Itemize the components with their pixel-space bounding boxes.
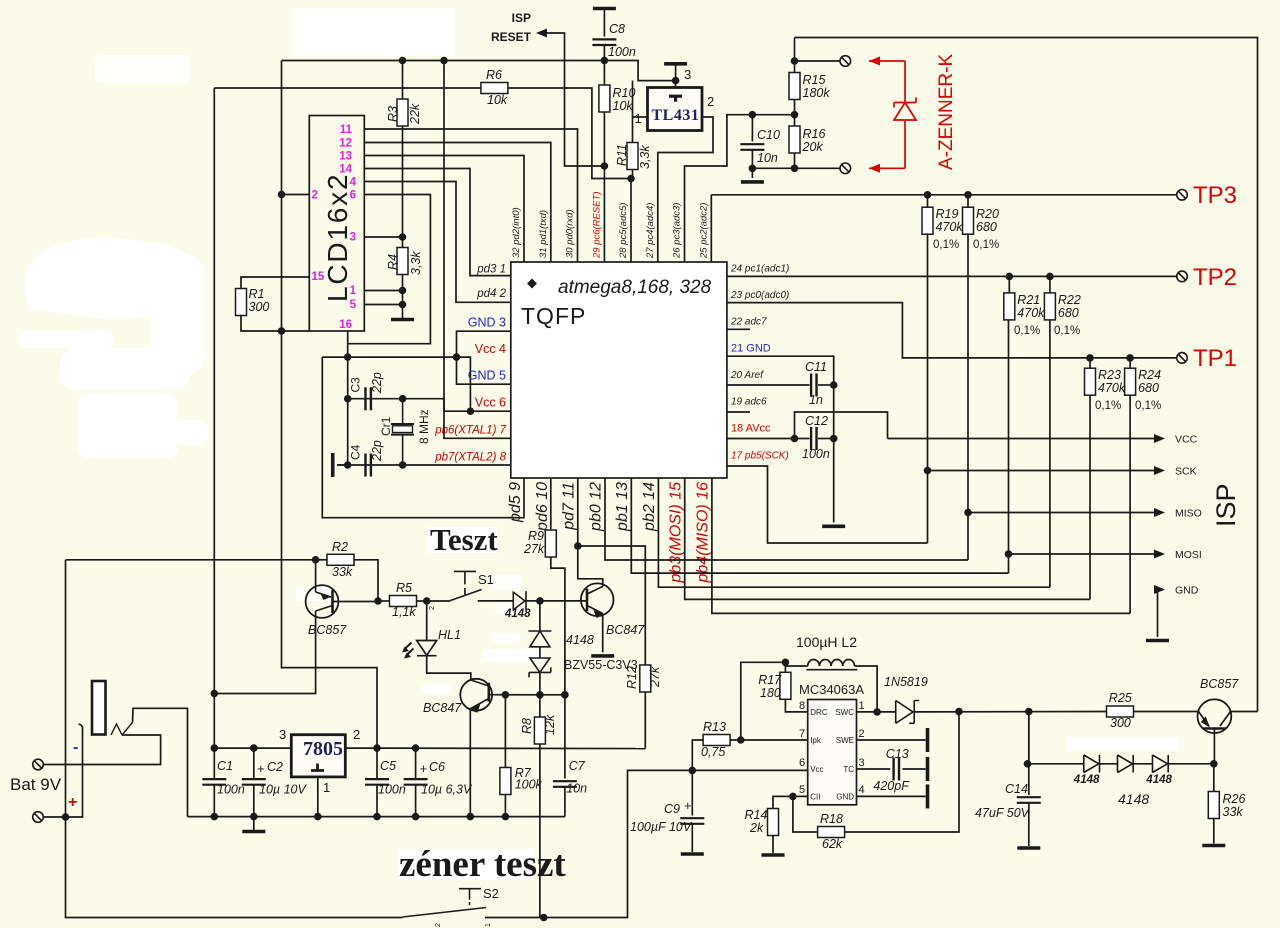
- svg-text:22k: 22k: [408, 103, 422, 125]
- diode D 1N5819: [896, 701, 920, 724]
- resistor R5 1,1k: [390, 596, 417, 607]
- svg-text:8: 8: [799, 700, 805, 712]
- capacitor C6 10u: [404, 779, 428, 785]
- svg-text:SWE: SWE: [836, 736, 854, 745]
- ground ground below R4: [391, 318, 414, 322]
- svg-text:100k: 100k: [515, 778, 543, 792]
- wire R12 bottom to 5V rail: [644, 692, 646, 749]
- junction TP2/R21: [1006, 273, 1014, 281]
- svg-text:C1: C1: [217, 759, 233, 773]
- wire C10 top wire: [751, 115, 753, 142]
- svg-text:26 pc3(adc3): 26 pc3(adc3): [672, 203, 683, 259]
- junction C10 top junction: [749, 111, 757, 119]
- wire R26 top wire: [1213, 764, 1215, 792]
- junction TP1/R23: [1086, 354, 1094, 362]
- wire pd6 route to R9: [550, 478, 552, 530]
- junction pd7/R12 junction: [574, 542, 582, 550]
- wire clamp top wire: [539, 601, 541, 631]
- wire C1 top: [213, 748, 215, 779]
- junction gnd rail / 7805 pin1: [314, 813, 322, 821]
- junction R16 bottom junction: [791, 165, 799, 173]
- svg-text:5: 5: [799, 784, 805, 796]
- wire battery minus wire: [43, 735, 160, 765]
- ground ground below pin21 line: [822, 524, 845, 528]
- junction gnd rail / C2/gnd stub: [250, 813, 258, 821]
- svg-text:100µF 10V: 100µF 10V: [630, 820, 693, 834]
- ground ground below BC847ur: [591, 654, 614, 658]
- wire R15 bottom to R16 top: [794, 100, 796, 127]
- resistor R11 3,3k: [627, 143, 638, 170]
- svg-text:C11: C11: [805, 360, 827, 374]
- svg-text:pb0 12: pb0 12: [587, 482, 604, 532]
- svg-text:0,1%: 0,1%: [1095, 400, 1121, 412]
- wire diode cathode wire: [526, 600, 587, 602]
- svg-text:0,1%: 0,1%: [1135, 400, 1161, 412]
- wire pb1 pin13 route: [631, 478, 1008, 573]
- junction SCK / R19 net: [924, 467, 932, 475]
- wire chain seg1: [1100, 763, 1118, 765]
- svg-text:pd3 1: pd3 1: [476, 264, 506, 276]
- DC jack connector body: [92, 681, 106, 735]
- wire divider sense wire: [685, 115, 795, 262]
- wire battery plus wire: [43, 729, 82, 817]
- svg-text:100n: 100n: [608, 45, 636, 59]
- junction L2 / R17 top: [782, 659, 790, 667]
- arrow RESET arrow: [536, 29, 547, 38]
- wire R25 right wire: [1134, 711, 1198, 713]
- wire SWC pin1 wire: [857, 711, 896, 713]
- svg-text:pd6 10: pd6 10: [534, 482, 551, 532]
- svg-text:3: 3: [684, 67, 691, 82]
- wire C10 bottom wire: [751, 150, 753, 178]
- wire C4 left rail: [347, 399, 349, 465]
- svg-text:VCC: VCC: [1175, 434, 1198, 446]
- junction C10 bottom junction: [749, 165, 757, 173]
- wire R18 right wire to output: [845, 712, 959, 833]
- wire pb0 pin12 route: [605, 478, 968, 560]
- svg-text:4148: 4148: [1073, 774, 1100, 786]
- arrow VCC arrow: [1154, 434, 1165, 443]
- wire R20 bottom long: [967, 234, 969, 560]
- wire R2 left wire: [316, 559, 327, 561]
- wire LCD pin6 wire: [348, 195, 431, 344]
- wire clamp bottom wire: [539, 672, 541, 694]
- svg-text:R13: R13: [703, 720, 726, 734]
- wire C5 top: [376, 748, 378, 779]
- junction LCD16 / gnd rail junction: [344, 353, 352, 361]
- ground power ground: [242, 830, 265, 834]
- svg-text:10n: 10n: [566, 782, 587, 796]
- svg-text:+: +: [684, 798, 692, 813]
- svg-text:29 pc6(RESET): 29 pc6(RESET): [591, 191, 602, 259]
- svg-text:TP3: TP3: [1193, 182, 1237, 209]
- svg-text:31 pd1(txd): 31 pd1(txd): [538, 210, 549, 258]
- svg-text:BC847: BC847: [606, 623, 645, 637]
- wire LCD pin5 wire: [364, 304, 402, 306]
- svg-text:R22: R22: [1058, 293, 1081, 307]
- wire terminal wire lower: [752, 167, 840, 169]
- svg-text:62k: 62k: [822, 837, 843, 851]
- resistor R22 680: [1044, 293, 1055, 320]
- svg-text:2: 2: [859, 728, 865, 740]
- svg-text:pd7 11: pd7 11: [561, 482, 578, 531]
- svg-text:0,75: 0,75: [701, 745, 725, 759]
- zener BZV55-C3V3: [529, 658, 551, 677]
- svg-text:R24: R24: [1138, 368, 1161, 382]
- svg-text:100n: 100n: [802, 447, 830, 461]
- svg-text:22p: 22p: [370, 372, 384, 394]
- wire GND line: [1158, 589, 1161, 591]
- svg-text:TQFP: TQFP: [521, 303, 586, 329]
- wire GND pin4 wire: [857, 795, 926, 797]
- junction TP3/R20: [964, 191, 972, 199]
- junction C12/gnd vertical: [830, 435, 838, 443]
- wire R2 right wire: [354, 560, 378, 601]
- wire emitter rail y560: [66, 559, 316, 561]
- wire R15 top wire: [794, 38, 796, 73]
- Teszt title: [427, 527, 497, 553]
- svg-text:GND 5: GND 5: [468, 369, 506, 383]
- svg-text:R14: R14: [745, 808, 768, 822]
- junction VCC rail / R3: [399, 57, 407, 65]
- svg-text:TC: TC: [843, 765, 854, 774]
- svg-text:32 pd2(int0): 32 pd2(int0): [511, 207, 522, 258]
- wire R24 bottom long: [1129, 395, 1131, 613]
- wire R19 top wire: [927, 195, 929, 207]
- arrow MISO arrow: [1154, 508, 1165, 517]
- LCD module LCD16x2: [309, 116, 364, 332]
- svg-text:1: 1: [485, 923, 492, 927]
- junction R11 / R6 / pc5 junction: [627, 175, 635, 183]
- wire left bus x215 from R6 wire to 7805 input: [213, 88, 215, 748]
- svg-text:8 MHz: 8 MHz: [417, 409, 431, 444]
- junction RESET / R10 bottom junction: [601, 162, 609, 170]
- svg-text:2: 2: [353, 727, 360, 742]
- svg-text:680: 680: [976, 220, 997, 234]
- svg-text:470k: 470k: [1017, 306, 1045, 320]
- wire C7 riser: [564, 695, 566, 779]
- svg-text:10µ 6,3V: 10µ 6,3V: [421, 783, 473, 797]
- svg-text:pb1 13: pb1 13: [614, 482, 631, 532]
- wire C7 bottom: [564, 787, 566, 817]
- resistor R1 300: [236, 289, 247, 316]
- svg-text:C5: C5: [380, 759, 396, 773]
- svg-text:1: 1: [323, 780, 330, 795]
- resistor R3 22k: [397, 99, 408, 126]
- svg-text:C8: C8: [609, 22, 625, 36]
- junction LCD pin2 / V+ vertical: [278, 191, 286, 199]
- wire HL1 cathode wire: [427, 656, 471, 680]
- wire adc6 pin19 stub: [727, 411, 750, 413]
- svg-text:pb7(XTAL2) 8: pb7(XTAL2) 8: [434, 452, 506, 464]
- svg-text:27k: 27k: [523, 542, 545, 556]
- wire BC847l base wire: [489, 694, 540, 696]
- svg-text:SWC: SWC: [835, 708, 854, 717]
- junction C3 left junction: [344, 395, 352, 403]
- svg-text:3,3k: 3,3k: [638, 145, 652, 169]
- diode D 4148 b: [1118, 755, 1134, 773]
- switch S2: [459, 889, 481, 905]
- svg-text:GND: GND: [836, 792, 854, 801]
- svg-text:7: 7: [799, 728, 805, 740]
- capacitor C13 420pF: [894, 758, 899, 781]
- svg-text:680: 680: [1138, 381, 1159, 395]
- svg-text:ISP: ISP: [1211, 483, 1241, 527]
- inductor L2: [808, 660, 855, 667]
- junction R2 / R5 / base junction: [374, 597, 382, 605]
- terminal TP3 terminal: [1177, 190, 1188, 201]
- wire L2 left wire: [785, 662, 807, 666]
- resistor R20 680: [963, 207, 974, 234]
- resistor R8 12k: [534, 717, 545, 744]
- junction R1-bottom / V+ vertical: [278, 327, 286, 335]
- crystal Cr1 8MHz: [391, 424, 414, 435]
- ground SWE gnd bar: [926, 728, 930, 752]
- wire BC857 emitter wire: [315, 560, 317, 592]
- svg-text:22p: 22p: [370, 440, 384, 462]
- resistor R21 470k: [1004, 293, 1015, 320]
- junction C11/gnd vertical: [830, 381, 838, 389]
- svg-text:C13: C13: [886, 747, 909, 761]
- svg-text:6: 6: [350, 190, 356, 202]
- svg-text:R18: R18: [820, 812, 843, 826]
- svg-text:300: 300: [249, 300, 270, 314]
- wire bottom loop: [66, 817, 403, 918]
- junction battery switched node: [689, 767, 697, 775]
- svg-text:33k: 33k: [1223, 805, 1244, 819]
- wire R5 left wire: [378, 600, 389, 602]
- wire R5 right wire: [417, 600, 427, 602]
- wire C11 right wire: [818, 384, 834, 386]
- wire R6 left wire: [214, 87, 481, 89]
- svg-text:0,1%: 0,1%: [1014, 325, 1040, 337]
- ground ISP ground: [1146, 639, 1169, 643]
- wire R23 bottom long: [1089, 395, 1091, 599]
- svg-text:TL431: TL431: [652, 107, 700, 124]
- LED HL1: [417, 641, 437, 656]
- junction gnd rail / C1: [211, 813, 219, 821]
- wire R14 bottom: [772, 836, 774, 854]
- svg-text:A-ZENNER-K: A-ZENNER-K: [936, 54, 957, 170]
- svg-text:25 pc2(adc2): 25 pc2(adc2): [698, 203, 709, 259]
- svg-text:C6: C6: [429, 760, 445, 774]
- svg-text:100µH L2: 100µH L2: [796, 634, 857, 650]
- wire left loop: [65, 560, 67, 817]
- wire base node line: [540, 694, 565, 696]
- wire TP2 line horizontal: [727, 275, 1177, 277]
- junction R3/R4/LCD3 junction: [399, 233, 407, 241]
- junction CII / R18 junction: [789, 793, 797, 801]
- wire LCD pin16 wire down: [347, 331, 349, 399]
- junction collector / x215 bus: [211, 690, 219, 698]
- wire TL431 pin2 wire to MCU pc4: [658, 117, 713, 262]
- wire R22 top wire: [1049, 276, 1051, 293]
- svg-text:BC857: BC857: [1200, 677, 1239, 691]
- svg-text:TP2: TP2: [1193, 264, 1237, 291]
- wire S1 left contact wire: [427, 600, 451, 602]
- svg-text:Bat 9V: Bat 9V: [10, 775, 62, 794]
- wire C9 bottom: [691, 824, 693, 852]
- resistor R24 680: [1125, 368, 1136, 395]
- svg-text:180k: 180k: [803, 86, 831, 100]
- resistor R9 27k: [545, 530, 556, 557]
- transistor Q3 BC847 lower: [460, 679, 492, 711]
- svg-text:R2: R2: [332, 540, 348, 554]
- MCU atmega8/168/328 TQFP: [511, 262, 727, 478]
- wire C8 top stem: [603, 9, 605, 37]
- jack switch zigzag: [111, 723, 133, 736]
- junction MISO / R20 net: [964, 509, 972, 517]
- capacitor C9 100uF electrolytic: [680, 818, 704, 824]
- svg-text:3,3k: 3,3k: [409, 251, 423, 275]
- svg-text:2k: 2k: [749, 821, 764, 835]
- wire TL431 pin3 stem: [675, 64, 677, 88]
- diode D 4148 c: [1153, 755, 1169, 773]
- svg-text:1n: 1n: [809, 393, 823, 407]
- svg-text:pb2 14: pb2 14: [641, 482, 658, 532]
- svg-text:R20: R20: [976, 207, 999, 221]
- svg-text:27 pc4(adc4): 27 pc4(adc4): [645, 203, 656, 259]
- wire SWE pin2 wire: [857, 739, 926, 741]
- capacitor C4 22p: [366, 454, 371, 477]
- svg-text:0,1%: 0,1%: [1054, 325, 1080, 337]
- wire C5 bottom: [376, 785, 378, 817]
- svg-text:R21: R21: [1017, 293, 1040, 307]
- svg-text:10n: 10n: [757, 151, 778, 165]
- wire L2 feed from Ipk node: [741, 662, 786, 740]
- svg-text:16: 16: [339, 319, 352, 331]
- svg-text:R26: R26: [1223, 792, 1246, 806]
- svg-text:R12: R12: [625, 666, 639, 689]
- resistor R10 10k: [599, 85, 610, 112]
- IC TL431: [648, 88, 703, 131]
- switch S1: [454, 571, 476, 594]
- junction gnd rail / R7: [502, 813, 510, 821]
- junction xtal top junction: [399, 395, 407, 403]
- wire GND3 wire: [457, 331, 511, 384]
- svg-text:4: 4: [350, 177, 357, 189]
- wire R20 top wire: [967, 195, 969, 207]
- wire BC857 collector wire: [214, 611, 315, 694]
- resistor R16 20k: [789, 126, 800, 153]
- wire R13 left wire: [692, 740, 703, 770]
- wire LCD pin13 wire to MCU pd2: [364, 156, 524, 263]
- resistor R14 2k: [768, 809, 779, 836]
- wire VCC top rail y60.5: [282, 61, 676, 81]
- wire XTAL2 pin8 wire: [337, 464, 511, 466]
- junction R4 bottom / LCD5 junction: [399, 301, 407, 309]
- svg-text:Ipk: Ipk: [810, 736, 822, 745]
- junction R13 / L2 node: [737, 736, 745, 744]
- erased patches left side: [18, 55, 208, 458]
- arrow MOSI arrow: [1154, 550, 1165, 559]
- capacitor C11 1n: [811, 374, 816, 397]
- svg-text:SCK: SCK: [1175, 466, 1197, 478]
- svg-text:1,1k: 1,1k: [392, 605, 416, 619]
- svg-text:atmega8,168, 328: atmega8,168, 328: [558, 277, 712, 298]
- wire MISO line: [968, 512, 1160, 514]
- svg-text:C7: C7: [569, 759, 586, 773]
- svg-text:4148: 4148: [1118, 791, 1149, 807]
- wire C4 to ground: [337, 464, 348, 466]
- wire R9 wire top: [550, 529, 552, 531]
- wire R12 drive route: [578, 546, 646, 665]
- wire C12 right wire: [818, 438, 834, 440]
- svg-text:+: +: [257, 761, 265, 776]
- svg-text:15: 15: [312, 271, 325, 283]
- junction C14 / diode chain: [1024, 760, 1032, 768]
- svg-text:C3: C3: [349, 377, 363, 393]
- transistor Q2 BC847 upper right: [581, 583, 614, 616]
- wire LCD pin14 wire to MCU pd3: [364, 169, 511, 276]
- wire R6 right wire down to R11 node: [508, 88, 631, 179]
- wire TL431 pin1 wire / R11 top: [633, 117, 648, 143]
- wire R13 right wire to Ipk: [730, 739, 808, 741]
- svg-text:ISP: ISP: [512, 11, 531, 25]
- jack centre pin hook: [79, 724, 83, 729]
- wire C14 bottom: [1028, 803, 1030, 846]
- wire chain seg2: [1133, 763, 1152, 765]
- wire R1 bottom wire: [241, 316, 309, 332]
- svg-text:+: +: [68, 794, 77, 811]
- svg-text:100n: 100n: [217, 783, 245, 797]
- resistor R25 300: [1107, 706, 1134, 717]
- wire clamp mid wire: [539, 647, 541, 658]
- svg-text:0,1%: 0,1%: [973, 239, 999, 251]
- svg-text:C12: C12: [805, 414, 828, 428]
- wire LCD pin1 wire: [364, 290, 402, 292]
- wire LCD pin11 wire to MCU pd0: [364, 129, 577, 262]
- wire BC857o collector wire: [1231, 711, 1258, 713]
- wire pin17 SCK route: [727, 466, 928, 543]
- svg-text:GND: GND: [1175, 585, 1199, 597]
- svg-text:23 pc0(adc0): 23 pc0(adc0): [730, 290, 789, 301]
- svg-text:20k: 20k: [802, 140, 824, 154]
- svg-text:18 AVcc: 18 AVcc: [731, 423, 771, 435]
- ground ground left of C4: [331, 453, 335, 477]
- wire GND pin21 wire: [727, 356, 834, 522]
- wire R10 bottom to MCU pc6: [603, 112, 605, 262]
- svg-text:33k: 33k: [332, 565, 353, 579]
- terminal zener clip upper: [840, 56, 851, 67]
- svg-text:14: 14: [339, 164, 352, 176]
- svg-text:4148: 4148: [1145, 774, 1172, 786]
- resistor R13 0,75: [703, 735, 730, 746]
- wire C14 top wire: [1028, 712, 1030, 796]
- arrow GND arrow: [1154, 585, 1165, 594]
- junction base / R26 junction: [1210, 760, 1218, 768]
- wire HL1 anode wire: [426, 601, 428, 640]
- svg-text:10µ 10V: 10µ 10V: [259, 783, 307, 797]
- svg-text:2: 2: [707, 94, 714, 109]
- ground ground below C10: [741, 180, 764, 184]
- svg-text:28 pc5(adc5): 28 pc5(adc5): [618, 203, 629, 259]
- ground ground below C14: [1017, 846, 1040, 850]
- svg-text:2: 2: [312, 190, 318, 202]
- wire R21 bottom long: [1008, 320, 1010, 573]
- wire ground rail: [188, 816, 565, 818]
- junction plus / left loop: [62, 813, 70, 821]
- wire R8 bottom wire: [539, 744, 541, 918]
- junction TP3/R19: [924, 191, 932, 199]
- svg-text:1: 1: [635, 111, 642, 126]
- wire C13 right wire: [902, 768, 925, 770]
- junction gnd rail / Q emitter: [467, 813, 475, 821]
- svg-text:17 pb5(SCK): 17 pb5(SCK): [731, 451, 789, 462]
- IC MC34063A: [808, 700, 857, 805]
- svg-text:6: 6: [799, 757, 805, 769]
- svg-text:RESET: RESET: [491, 30, 532, 44]
